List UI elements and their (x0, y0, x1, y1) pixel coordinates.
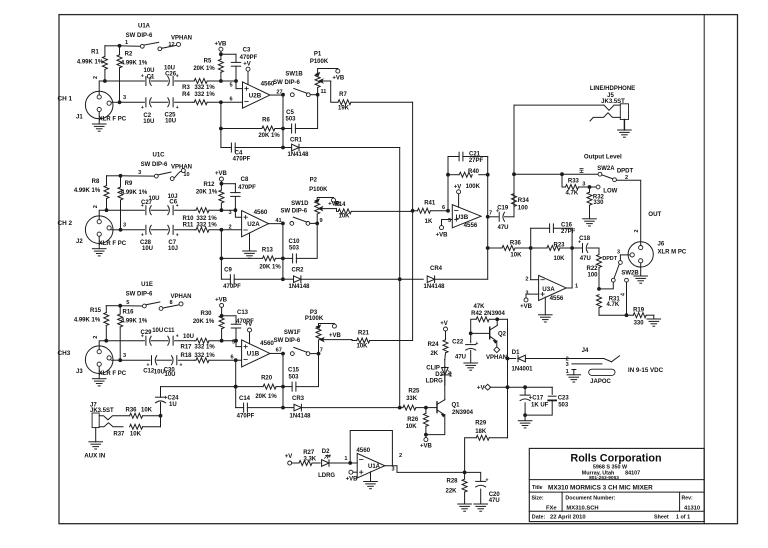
capacitor C17 (524, 387, 526, 395)
ground pin of U2A (249, 233, 251, 251)
svg-text:C20: C20 (489, 492, 501, 498)
ground at C22 (464, 362, 478, 364)
resistor R42 (471, 319, 477, 333)
svg-text:R41: R41 (424, 201, 436, 207)
svg-text:3: 3 (582, 181, 585, 187)
capacitor C2 (121, 101, 144, 103)
svg-text:R28: R28 (446, 478, 458, 484)
svg-text:+V: +V (477, 384, 486, 391)
wire U3A output (566, 287, 572, 289)
svg-text:503: 503 (289, 245, 300, 251)
svg-text:503: 503 (285, 116, 296, 122)
resistor R12 (219, 177, 223, 181)
svg-text:1: 1 (575, 283, 578, 289)
svg-text:4560: 4560 (356, 447, 370, 454)
resistor R31 (597, 295, 602, 308)
svg-text:10U: 10U (142, 246, 153, 252)
svg-text:VPHAN: VPHAN (170, 294, 191, 300)
svg-text:4.7K: 4.7K (607, 302, 620, 308)
svg-text:SW1D: SW1D (291, 201, 309, 207)
svg-text:10J: 10J (168, 194, 178, 200)
svg-text:+: + (176, 333, 179, 339)
svg-text:12: 12 (168, 42, 174, 48)
svg-text:R36: R36 (510, 240, 522, 246)
svg-text:P100K: P100K (305, 316, 324, 322)
svg-text:R42 2N3904: R42 2N3904 (471, 311, 505, 317)
resistor R40 feedback (448, 174, 459, 176)
svg-text:1N4001: 1N4001 (511, 367, 533, 373)
svg-text:CH 1: CH 1 (58, 96, 73, 103)
svg-text:CH 2: CH 2 (58, 220, 73, 227)
resistor R28 (462, 479, 467, 492)
svg-text:10K: 10K (406, 424, 418, 430)
svg-text:XLR F PC: XLR F PC (99, 117, 127, 123)
XLR connector J3 (85, 346, 113, 374)
capacitor C8 (221, 183, 235, 185)
resistor R41 (413, 210, 418, 212)
svg-text:8: 8 (169, 300, 172, 306)
wire headphone feed (513, 105, 515, 217)
svg-text:10K: 10K (510, 252, 522, 258)
switch U1E SW DIP-6 (120, 305, 142, 307)
resistor R4 bottom row (193, 101, 195, 103)
svg-text:R36: R36 (125, 408, 137, 414)
resistor R7 (322, 80, 330, 82)
ground at U3A (544, 297, 546, 315)
svg-text:+VB: +VB (329, 333, 342, 339)
svg-text:+VB: +VB (332, 76, 345, 82)
svg-text:67: 67 (276, 348, 282, 354)
XLR connector J1 (85, 91, 113, 119)
resistor R23 feedback (531, 247, 547, 249)
svg-text:C23: C23 (558, 395, 570, 401)
svg-text:3: 3 (123, 353, 126, 359)
op-amp U2A (235, 210, 241, 217)
transistor Q2 2N3904 (471, 332, 490, 334)
resistor R20 feedback (235, 360, 237, 407)
ground at R28 (458, 503, 472, 505)
svg-text:C6: C6 (169, 199, 177, 205)
svg-text:CR4: CR4 (430, 266, 443, 272)
svg-text:R24: R24 (428, 342, 440, 348)
capacitor C22 (470, 333, 472, 342)
resistor R11 bottom row (195, 229, 197, 231)
svg-text:U2A: U2A (247, 221, 260, 228)
svg-text:R3: R3 (182, 85, 190, 91)
resistor R10 top row (195, 209, 197, 211)
svg-text:R6: R6 (262, 117, 270, 123)
ground at U1A (370, 472, 372, 482)
wire XLR pin3 to bottom row (111, 229, 121, 231)
resistor R13 feedback (220, 230, 222, 279)
resistor R8 (106, 176, 108, 186)
op-amp U1B (236, 341, 242, 347)
capacitor C20 (465, 472, 481, 481)
svg-text:10K: 10K (553, 256, 565, 262)
svg-text:10: 10 (183, 172, 189, 178)
svg-text:D3: D3 (435, 372, 443, 378)
svg-text:6: 6 (230, 355, 233, 361)
capacitor C16 feedback (531, 227, 550, 229)
svg-text:C8: C8 (241, 177, 249, 183)
svg-text:6: 6 (229, 97, 232, 103)
svg-text:+VB: +VB (520, 304, 533, 310)
svg-text:R26: R26 (407, 417, 419, 423)
svg-text:J3: J3 (76, 369, 83, 375)
svg-text:R9: R9 (125, 181, 133, 187)
svg-text:Q2: Q2 (498, 331, 507, 337)
svg-text:R13: R13 (262, 247, 274, 253)
svg-text:1N4148: 1N4148 (289, 413, 311, 419)
svg-text:VPHAN: VPHAN (171, 35, 192, 41)
capacitor C26 (151, 80, 168, 82)
svg-text:47U: 47U (489, 498, 500, 504)
svg-text:+V: +V (440, 321, 448, 327)
svg-text:5: 5 (126, 300, 129, 306)
resistor R29 (507, 387, 509, 438)
svg-text:503: 503 (558, 403, 569, 409)
svg-text:+: + (176, 105, 179, 111)
svg-text:100: 100 (587, 273, 598, 279)
capacitor C25 (151, 101, 168, 103)
svg-text:801-263-9053: 801-263-9053 (589, 475, 619, 481)
svg-text:C9: C9 (224, 267, 232, 273)
ground at R19 (653, 315, 655, 319)
svg-text:SW DIP-6: SW DIP-6 (126, 33, 153, 39)
svg-text:VPHAN: VPHAN (486, 355, 507, 361)
svg-text:+: + (176, 74, 179, 80)
svg-text:Rev:: Rev: (682, 495, 694, 501)
svg-text:4.99K 1%: 4.99K 1% (121, 190, 148, 196)
svg-text:Document Number:: Document Number: (565, 495, 615, 501)
svg-text:3: 3 (617, 249, 620, 255)
diode CR4 (400, 278, 424, 280)
wire XLR pin3 to bottom row (111, 359, 121, 361)
svg-text:P100K: P100K (309, 187, 328, 193)
XLR connector J2 (85, 216, 113, 244)
svg-text:4: 4 (620, 293, 626, 296)
svg-text:332 1%: 332 1% (194, 85, 215, 91)
svg-text:+C17: +C17 (529, 395, 544, 401)
svg-text:+: + (179, 363, 182, 369)
svg-text:OUT: OUT (648, 211, 661, 218)
svg-text:R5: R5 (204, 59, 212, 65)
svg-text:R15: R15 (90, 308, 102, 314)
svg-text:+: + (578, 239, 581, 245)
ground at J2 (98, 236, 100, 248)
svg-text:2: 2 (399, 453, 402, 459)
wire aux to U1B (161, 386, 236, 388)
svg-text:P100K: P100K (310, 59, 329, 65)
svg-text:C29: C29 (140, 330, 152, 336)
potentiometer P2 P100K (315, 201, 320, 214)
svg-text:10U: 10U (164, 66, 175, 72)
wire U1A feedback loop (350, 431, 392, 466)
diode D1 1N4001 (508, 358, 516, 360)
svg-text:R22: R22 (586, 266, 598, 272)
svg-text:2N3904: 2N3904 (452, 410, 474, 416)
capacitor C29 (106, 340, 144, 342)
svg-text:U1B: U1B (247, 350, 260, 357)
svg-text:6: 6 (442, 205, 445, 211)
svg-text:U1E: U1E (141, 282, 153, 288)
wire Q2 collector to D1 (497, 318, 507, 320)
svg-text:R7: R7 (339, 92, 347, 98)
svg-text:R19: R19 (633, 308, 645, 314)
resistor R25 (400, 407, 403, 409)
svg-text:+C24: +C24 (164, 396, 179, 402)
svg-text:+: + (176, 232, 179, 238)
svg-text:470PF: 470PF (237, 413, 255, 419)
svg-text:VPHAN: VPHAN (171, 164, 192, 170)
svg-text:C3: C3 (243, 48, 251, 54)
terminal VPHAN at U1E (179, 302, 183, 306)
terminal VPHAN at U1C (181, 169, 185, 173)
resistor R17 top row (195, 340, 197, 342)
resistor R27 (292, 462, 299, 464)
svg-text:332 1%: 332 1% (196, 223, 217, 229)
svg-text:U1C: U1C (152, 152, 165, 158)
svg-text:10U: 10U (148, 196, 159, 202)
ground at R32 (583, 218, 597, 220)
svg-text:R11: R11 (183, 223, 194, 229)
svg-text:10U: 10U (143, 119, 154, 125)
svg-text:+VB: +VB (420, 444, 433, 450)
svg-text:R27: R27 (303, 450, 315, 456)
svg-text:C22: C22 (452, 340, 464, 346)
switch U1C SW DIP-6 (121, 175, 155, 177)
svg-text:470PF: 470PF (238, 185, 256, 191)
svg-text:LDRG: LDRG (318, 473, 335, 479)
svg-text:SW DIP-6: SW DIP-6 (141, 162, 168, 168)
svg-text:C19: C19 (497, 206, 509, 212)
wire +V rail (490, 386, 552, 388)
svg-text:1: 1 (344, 456, 347, 462)
terminal VPHAN at U1A (177, 42, 181, 46)
capacitor C27 (107, 209, 145, 211)
svg-text:+: + (485, 477, 488, 483)
svg-text:R37: R37 (113, 431, 125, 437)
svg-text:1N4148: 1N4148 (287, 152, 309, 158)
svg-text:7: 7 (320, 347, 323, 353)
svg-text:SW2B: SW2B (621, 270, 639, 276)
resistor R36 mix (488, 247, 502, 249)
svg-text:+: + (475, 341, 478, 347)
svg-text:R4: R4 (182, 92, 190, 98)
switch U1A SW DIP-6 (120, 45, 141, 48)
svg-text:J6: J6 (658, 242, 665, 248)
svg-text:47U: 47U (580, 256, 591, 262)
svg-text:4.99K 1%: 4.99K 1% (74, 317, 101, 323)
resistor R5 (219, 47, 223, 51)
svg-text:P2: P2 (310, 178, 318, 184)
svg-text:+VB: +VB (215, 298, 228, 304)
svg-text:CH3: CH3 (58, 350, 71, 357)
switch SW1D SW DIP-6 (290, 222, 294, 226)
svg-text:27PF: 27PF (469, 158, 484, 164)
svg-text:C5: C5 (286, 110, 294, 116)
svg-text:+VB: +VB (214, 41, 227, 47)
svg-text:11: 11 (321, 89, 327, 95)
svg-text:+VB: +VB (436, 232, 449, 238)
capacitor C19 (488, 216, 499, 218)
capacitor C6 (151, 209, 168, 211)
resistor R18 bottom row (195, 359, 197, 361)
svg-text:+VB: +VB (215, 171, 228, 177)
svg-text:U3B: U3B (456, 214, 469, 221)
svg-text:5: 5 (229, 83, 232, 89)
terminal +V at R27 (288, 461, 292, 465)
wire U1A output (385, 466, 465, 473)
resistor R37 (130, 424, 143, 429)
svg-text:SW1F: SW1F (284, 330, 301, 336)
ground at J1 (98, 112, 100, 124)
svg-text:DPDT: DPDT (617, 169, 634, 175)
svg-text:U3A: U3A (542, 286, 555, 293)
svg-text:332 1%: 332 1% (194, 92, 215, 98)
svg-text:4.99K 1%: 4.99K 1% (121, 60, 148, 66)
svg-text:IN 9-15 VDC: IN 9-15 VDC (628, 367, 664, 374)
svg-text:C21: C21 (469, 151, 481, 157)
switch SW2B DPDT (620, 254, 629, 256)
LED D2 LDRG (322, 460, 329, 467)
capacitor C5 (283, 128, 292, 130)
svg-text:10U: 10U (183, 334, 194, 340)
svg-text:R30: R30 (200, 311, 212, 317)
terminal +V supply (485, 384, 491, 390)
svg-text:Title: Title (532, 485, 543, 491)
svg-text:R29: R29 (475, 420, 487, 426)
svg-text:C16: C16 (561, 223, 573, 229)
resistor R26 (423, 413, 428, 426)
wire SW2B to R19 (626, 282, 628, 315)
svg-text:R12: R12 (203, 182, 215, 188)
svg-text:Q1: Q1 (452, 403, 461, 409)
XLR connector J6 (628, 242, 653, 267)
ground at J5 (623, 120, 625, 131)
svg-text:22 April 2010: 22 April 2010 (550, 515, 586, 521)
svg-text:332 1%: 332 1% (196, 216, 217, 222)
svg-text:R23: R23 (553, 243, 565, 249)
svg-text:27: 27 (276, 89, 282, 95)
svg-text:C1: C1 (147, 74, 155, 80)
svg-text:2: 2 (634, 230, 640, 233)
ground at J6 (640, 263, 642, 276)
svg-text:1N4148: 1N4148 (423, 284, 445, 290)
svg-text:2: 2 (228, 225, 231, 231)
op-amp U1A (357, 453, 385, 478)
capacitor C14 (236, 407, 244, 409)
svg-text:19K: 19K (338, 106, 350, 112)
wire U3B output node (487, 157, 489, 280)
svg-text:Output Level: Output Level (584, 154, 622, 161)
switch SW1B SW DIP-6 (290, 93, 294, 97)
svg-text:R40: R40 (468, 169, 480, 175)
svg-text:C15: C15 (288, 368, 300, 374)
svg-text:MX310 MORMiCS 3 CH MIC MIXER: MX310 MORMiCS 3 CH MIC MIXER (548, 485, 653, 492)
svg-text:R8: R8 (92, 179, 100, 185)
svg-text:3.3K: 3.3K (303, 456, 316, 462)
wire mix bus (412, 102, 414, 340)
capacitor C13 (222, 315, 236, 317)
svg-text:JK3.5ST: JK3.5ST (601, 99, 625, 105)
potentiometer P3 P100K (316, 327, 321, 340)
svg-text:+V: +V (245, 322, 253, 328)
svg-text:47K: 47K (473, 304, 485, 310)
capacitor C12 (121, 359, 150, 361)
svg-text:47U: 47U (455, 355, 466, 361)
resistor R34 (512, 194, 517, 207)
svg-text:J1: J1 (76, 115, 83, 121)
terminal +V at U3B power (457, 190, 461, 194)
svg-text:CR3: CR3 (292, 396, 305, 402)
resistor R2 (118, 44, 122, 48)
svg-text:SW2A: SW2A (597, 166, 615, 172)
svg-text:22K: 22K (445, 488, 457, 494)
resistor R16 (118, 304, 122, 308)
op-amp U3A (539, 275, 567, 300)
capacitor C3 (221, 53, 236, 55)
svg-text:Date:: Date: (532, 515, 546, 521)
terminal +VB at U1A (353, 471, 357, 473)
svg-text:10U: 10U (152, 328, 163, 334)
svg-text:XLR F PC: XLR F PC (99, 241, 127, 247)
svg-text:XLR F PC: XLR F PC (99, 371, 127, 377)
output wire of U2B (270, 94, 283, 96)
capacitor C18 (572, 247, 582, 249)
svg-text:JAPOC: JAPOC (590, 379, 611, 385)
resistor R21 (323, 339, 352, 341)
svg-text:D1: D1 (512, 350, 520, 356)
ground at C20 (474, 503, 488, 505)
svg-text:9: 9 (320, 218, 323, 224)
terminal +V at R24 (444, 327, 448, 331)
svg-text:CR2: CR2 (291, 267, 304, 273)
svg-text:5: 5 (232, 340, 235, 346)
svg-text:2: 2 (93, 76, 99, 79)
svg-text:LINE/HDPHONE: LINE/HDPHONE (590, 86, 635, 92)
svg-text:C14: C14 (239, 396, 251, 402)
svg-text:+V: +V (243, 61, 251, 67)
svg-text:FXe: FXe (546, 505, 557, 511)
svg-text:1N4148: 1N4148 (288, 284, 310, 290)
capacitor C7 (151, 229, 168, 231)
svg-text:5968 S 350 W: 5968 S 350 W (593, 464, 628, 470)
svg-text:J4: J4 (582, 348, 589, 354)
svg-text:470PF: 470PF (233, 157, 251, 163)
capacitor C23 (551, 387, 553, 394)
svg-text:3: 3 (138, 170, 141, 176)
capacitor C21 feedback (447, 157, 449, 211)
diode CR3 (283, 407, 294, 409)
wire aux sum node (160, 416, 162, 427)
svg-text:2: 2 (525, 277, 528, 283)
svg-text:1 of 1: 1 of 1 (676, 515, 690, 521)
transistor Q1 2N3904 (426, 407, 437, 409)
svg-text:10K: 10K (356, 343, 368, 349)
svg-text:R1: R1 (91, 50, 99, 56)
svg-text:20K 1%: 20K 1% (193, 319, 215, 325)
svg-text:4560: 4560 (254, 209, 268, 216)
capacitor C10 (283, 257, 293, 259)
terminal VPHAN at Q2 (496, 341, 498, 347)
svg-text:R17: R17 (180, 345, 192, 351)
power +V pin of U1B (248, 328, 252, 332)
svg-text:R2: R2 (125, 52, 133, 58)
ground at J3 (98, 366, 100, 378)
wire Q1 emitter (426, 415, 445, 435)
svg-text:LDRG: LDRG (426, 379, 443, 385)
